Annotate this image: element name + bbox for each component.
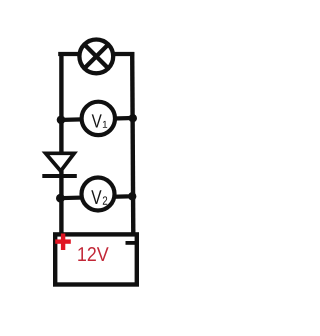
lamp L1 (circle with X) — [79, 40, 113, 74]
label 12V (battery value) — [78, 247, 108, 261]
junction node: left of V1 — [57, 116, 66, 125]
junction node: left of V2 — [56, 194, 65, 203]
diode D1 (triangle + cathode bar) — [42, 153, 77, 176]
voltmeter U1 circle — [82, 102, 115, 135]
battery BT1 body — [55, 234, 137, 284]
junction node: right of V2 — [128, 192, 136, 200]
wire: V2 branch horizontal — [59, 196, 136, 198]
battery positive (+) polarity mark — [55, 234, 71, 251]
wire: left vertical rail — [59, 52, 63, 235]
wire: right vertical rail — [132, 52, 133, 236]
junction node: right of V1 — [129, 114, 137, 122]
label V2 — [91, 190, 107, 204]
voltmeter U2 circle — [82, 178, 115, 211]
label V1 — [92, 114, 108, 127]
wire: V1 branch horizontal — [59, 118, 136, 120]
wire: top horizontal (lamp branch) — [58, 52, 134, 56]
battery negative terminal dash — [126, 241, 136, 245]
